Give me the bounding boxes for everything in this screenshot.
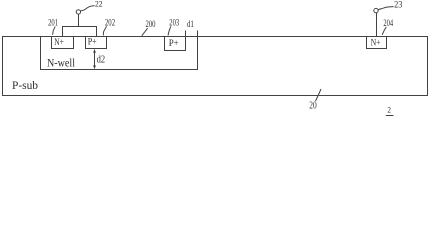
terminal circle 22	[76, 10, 80, 14]
contact plate over N+/P+	[63, 27, 97, 37]
P+ region 202	[86, 37, 107, 49]
leader 204	[382, 27, 386, 35]
d1 tick left	[185, 31, 187, 37]
svg-text:203: 203	[169, 17, 179, 27]
svg-text:20: 20	[309, 101, 316, 112]
svg-text:d1: d1	[187, 19, 194, 29]
N+ region 201	[52, 37, 74, 49]
svg-text:P+: P+	[88, 38, 97, 48]
N+ region 204	[367, 37, 387, 49]
svg-text:N+: N+	[54, 38, 64, 48]
svg-text:d2: d2	[97, 54, 106, 65]
leader 201	[53, 27, 56, 35]
N-well region boundary	[41, 37, 198, 70]
leader 20	[316, 89, 322, 101]
leader 203	[168, 27, 171, 36]
svg-text:204: 204	[383, 18, 393, 28]
P-sub substrate outline 20	[3, 37, 428, 96]
svg-text:N+: N+	[371, 39, 381, 49]
d2 dimension arrow	[94, 51, 96, 68]
terminal stem 23	[376, 13, 378, 37]
svg-text:23: 23	[394, 0, 403, 9]
leader 200	[142, 28, 148, 36]
svg-text:P-sub: P-sub	[12, 80, 38, 92]
leader 202	[103, 26, 106, 35]
svg-text:202: 202	[105, 18, 116, 28]
svg-text:P+: P+	[169, 39, 179, 49]
leader 23	[378, 7, 394, 10]
svg-text:201: 201	[48, 17, 58, 27]
svg-text:2: 2	[387, 105, 391, 115]
d1 tick right	[197, 31, 199, 37]
figure number underline	[386, 115, 394, 117]
svg-text:N-well: N-well	[47, 57, 75, 69]
P+ region 203	[165, 37, 186, 51]
leader 22	[81, 6, 95, 11]
terminal circle 23	[374, 8, 378, 12]
svg-text:22: 22	[95, 0, 103, 9]
terminal stem 22	[78, 14, 80, 26]
svg-text:200: 200	[146, 19, 156, 29]
